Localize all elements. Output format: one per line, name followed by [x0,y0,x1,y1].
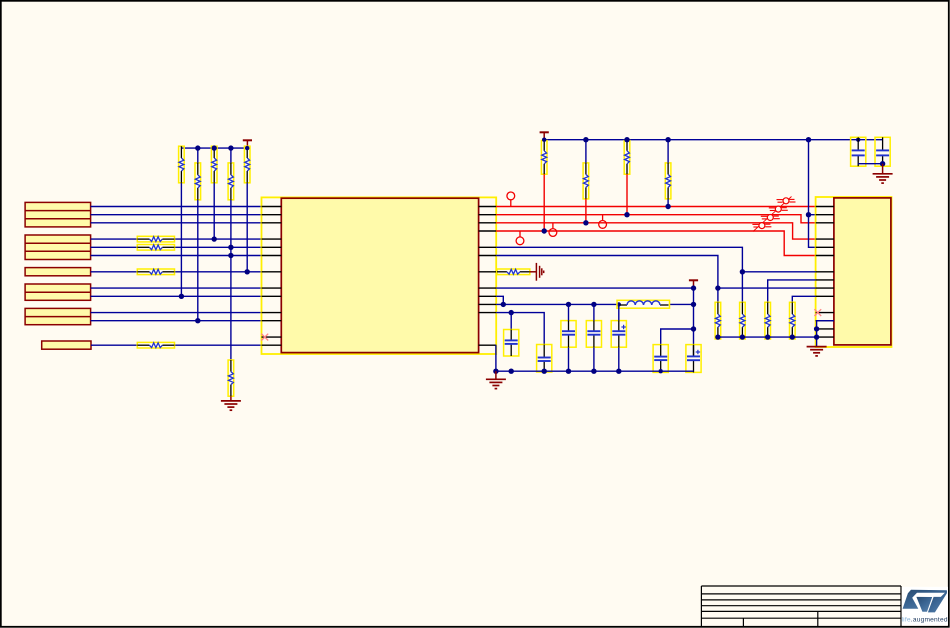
resistor R19 (to ground) [497,269,530,275]
resistor R5 (pull-up) [179,146,185,183]
test point TP4 (below net A1) [599,215,607,229]
capacitor C3 [561,321,576,348]
logo cell [902,587,948,625]
wire net D10 [91,320,262,322]
connector J1 (3-pin port) [25,202,91,227]
wire C3 bottom lead [568,347,570,371]
wire ground rail (right bank) [718,336,817,338]
wire R14 lead to net A0 [667,199,669,207]
junction on VCC rail at R7 [212,145,217,150]
junction rail-R12 [583,137,588,142]
connector J7 selection box [816,197,892,347]
junction R13-A1 [624,212,629,217]
IC U1 left pins [262,207,282,346]
junction on VCC rail at R6 [195,145,200,150]
test point TP2 (below net A3) [516,231,524,245]
wire C5 top lead [618,304,620,320]
capacitor C9 [875,137,890,166]
junction R15 bottom [715,334,720,339]
resistor R8 (pull-up) [228,163,234,200]
resistor R14 (pull) [665,163,671,199]
connector J6 (1-pin port) [42,341,91,349]
ST logo [903,590,947,613]
junction gnd-row15 [814,326,819,331]
junction gnd-C3 [566,369,571,374]
resistor R9 (pull-up) [244,146,250,183]
wire VDD rail row12 [496,303,619,305]
wire R11 lead to net A3 [543,174,545,231]
wire C4 top lead [593,304,595,320]
junction R6-D10 [195,318,200,323]
connector J7 pins [816,207,834,338]
wire net D6 left segment [91,271,138,273]
wire U1 row17 to ground [495,345,497,371]
wire VCC rail (top-left) [181,147,247,149]
wire net D3 right segment [175,238,262,240]
junction VDD-branch [691,326,696,331]
wire C5 bottom lead [618,347,620,371]
ground (below R10) [221,396,241,410]
wire C8-C9 bottoms [858,163,882,165]
junction R17 bottom [765,334,770,339]
wire inductor right lead to VDD [670,303,694,305]
capacitor C5 (polarized) [611,321,626,348]
wire net D3 left segment [91,238,138,240]
test point TP3 (below net A2) [549,223,557,237]
ground (below C9) [873,164,893,183]
junction gnd-row16 [814,334,819,339]
wire R6 top lead [197,148,199,163]
wire V1 stub to pin row1 [809,214,816,216]
junction gnd-C6 [659,369,663,373]
wire C3 top lead [568,304,570,320]
junction R8-D5 [228,253,233,258]
resistor R2 (series) [137,245,174,251]
title block [701,586,901,626]
wire R17 column and row to J7 pin9 [768,280,816,302]
junction gnd-C4 [591,369,596,374]
wire R7 column [213,183,215,239]
wire R18 column and row to J7 pin11 [792,296,815,302]
connector J2 (3-pin port) [25,235,91,260]
capacitor C8 [851,137,866,166]
resistor R15 (pull-down) [715,302,721,339]
wire U1 row5 to R16 column [496,247,742,302]
wire U1 row6 to R15 column [496,256,718,303]
wire net D4 right segment [175,246,262,248]
resistor R6 (pull-up) [195,163,201,200]
wire net D2 [91,222,262,224]
wire red net A2 [496,223,815,239]
wire R8 top lead [230,148,232,163]
wire VDD rail (top-right) [544,139,882,141]
wire R14 top lead [667,140,669,163]
junction V1-row1 [806,212,811,217]
junction R15-row10 [715,285,720,290]
IC U1 right pins [479,207,497,346]
junction gnd-C1 [509,369,514,374]
wire V1 power to connector [809,140,816,248]
wire net D1 [91,214,262,216]
wire R8 column [230,200,232,360]
wire net D6 right segment [175,271,262,273]
no-connect X on J7 pin [814,309,821,316]
capacitor C6 [653,345,668,373]
junction R9-D6 [245,269,250,274]
junction VDD-row12 [691,302,696,307]
power symbol VDD (top-right) [540,132,549,139]
junction gnd-C5 [616,369,621,374]
wire R12 top lead [585,140,587,163]
capacitor C2 [537,345,552,373]
junction R11-A3 [542,228,547,233]
ferrite bead marks FB1-FB4 (diagonal) [752,197,795,232]
junction C3-rail [566,302,571,307]
svg-text:life.augmented: life.augmented [902,617,948,624]
op IC U1 selection box [262,197,497,354]
resistor R13 (pull) [624,141,630,175]
capacitor C4 [586,321,601,348]
wire net D9 [91,312,262,314]
wire R12 lead to net A2 [585,199,587,223]
resistor R11 (pull) [541,141,547,175]
wire net D7 [91,287,262,289]
wire C1 top lead [510,313,512,330]
resistor R16 (pull-down) [740,302,746,339]
junction R8-D4 [228,245,233,250]
ground (below J7) [807,347,827,356]
junction R5-D8 [179,294,184,299]
junction R18 bottom [790,334,795,339]
connector J4 (2-pin port) [25,284,91,300]
junction R16-row8 [740,269,745,274]
power symbol VCC (top-left) [243,140,252,148]
wire VDD vertical [693,287,695,357]
wire R6 column [197,200,199,321]
wire U1 row10 to VDD [496,287,693,289]
wire J7 ground column [817,321,834,347]
resistor R12 (pull) [583,163,589,199]
junction P-VCC-square [542,138,546,142]
resistor R7 (pull-up) [211,146,217,183]
junction VDD-row10 [691,285,696,290]
wire net D8 [91,295,262,297]
resistor R3 (series) [137,269,174,275]
junction rail-V1 [806,137,811,142]
wire ground rail (decoupling) [496,370,694,372]
resistor R17 (pull-down) [765,302,771,339]
wire R15 row to J7 pin10 [718,287,816,289]
resistor R18 (pull-down) [790,302,796,339]
wire net D0 [91,206,262,208]
junction gnd-C2 [542,369,547,374]
junction R14-A0 [665,204,670,209]
junction rail-R13 [624,137,629,142]
wire branch row15 to C6 [661,329,694,345]
junction gnd-row17 [493,369,498,374]
connector J5 (2-pin port) [25,308,91,324]
wire C4 bottom lead [593,347,595,371]
wire red net A1 [496,215,815,223]
wire U1 row11 jog [496,296,503,304]
resistor R4 (series) [137,342,174,348]
junction rail-R14 [665,137,670,142]
junction C5-rail [617,302,621,306]
wire net D11 right segment [175,344,262,346]
IC U1 body [281,198,478,352]
capacitor C1 [504,330,519,357]
wire net D4 left segment [91,246,138,248]
junction R16 bottom [740,334,745,339]
resistor R10 (pull-down) [228,360,234,396]
wire cap rail row13 [496,313,544,345]
junction rail-C8 [856,138,860,142]
junction C9 bottom [880,161,885,166]
ground (sideways, at R19) [530,263,544,281]
connector J3 (1-pin port) [25,268,91,276]
test point TP1 (above net A0) [507,192,515,207]
junction R7-D3 [212,236,217,241]
junction row11-rail [501,302,506,307]
wire net D5 [91,255,262,257]
junction C1-row13 [509,310,514,315]
wire red net A0 [496,206,815,208]
wire net D11 [91,344,137,346]
inductor L1 [617,300,670,308]
wire R5 column [180,183,182,296]
connector J7 body [834,198,891,345]
resistor R1 (series) [137,236,174,242]
capacitor C7 (polarized) [686,345,701,373]
no-connect X on U1 left pin [261,334,268,341]
junction on VCC rail at R9 [245,146,249,150]
ground (decoupling rail) [486,371,506,388]
junction on VCC rail at R8 [228,145,233,150]
wire R16 row to J7 pin8 [742,271,815,273]
power symbol VDD (center) [689,280,698,286]
wire R9 column [246,183,248,272]
junction C4-rail [591,302,596,307]
junction R12-A2 [583,220,588,225]
wire R13 lead to net A1 [626,174,628,215]
wire red net A3 [496,231,815,256]
logo text life.augmented [902,617,948,624]
